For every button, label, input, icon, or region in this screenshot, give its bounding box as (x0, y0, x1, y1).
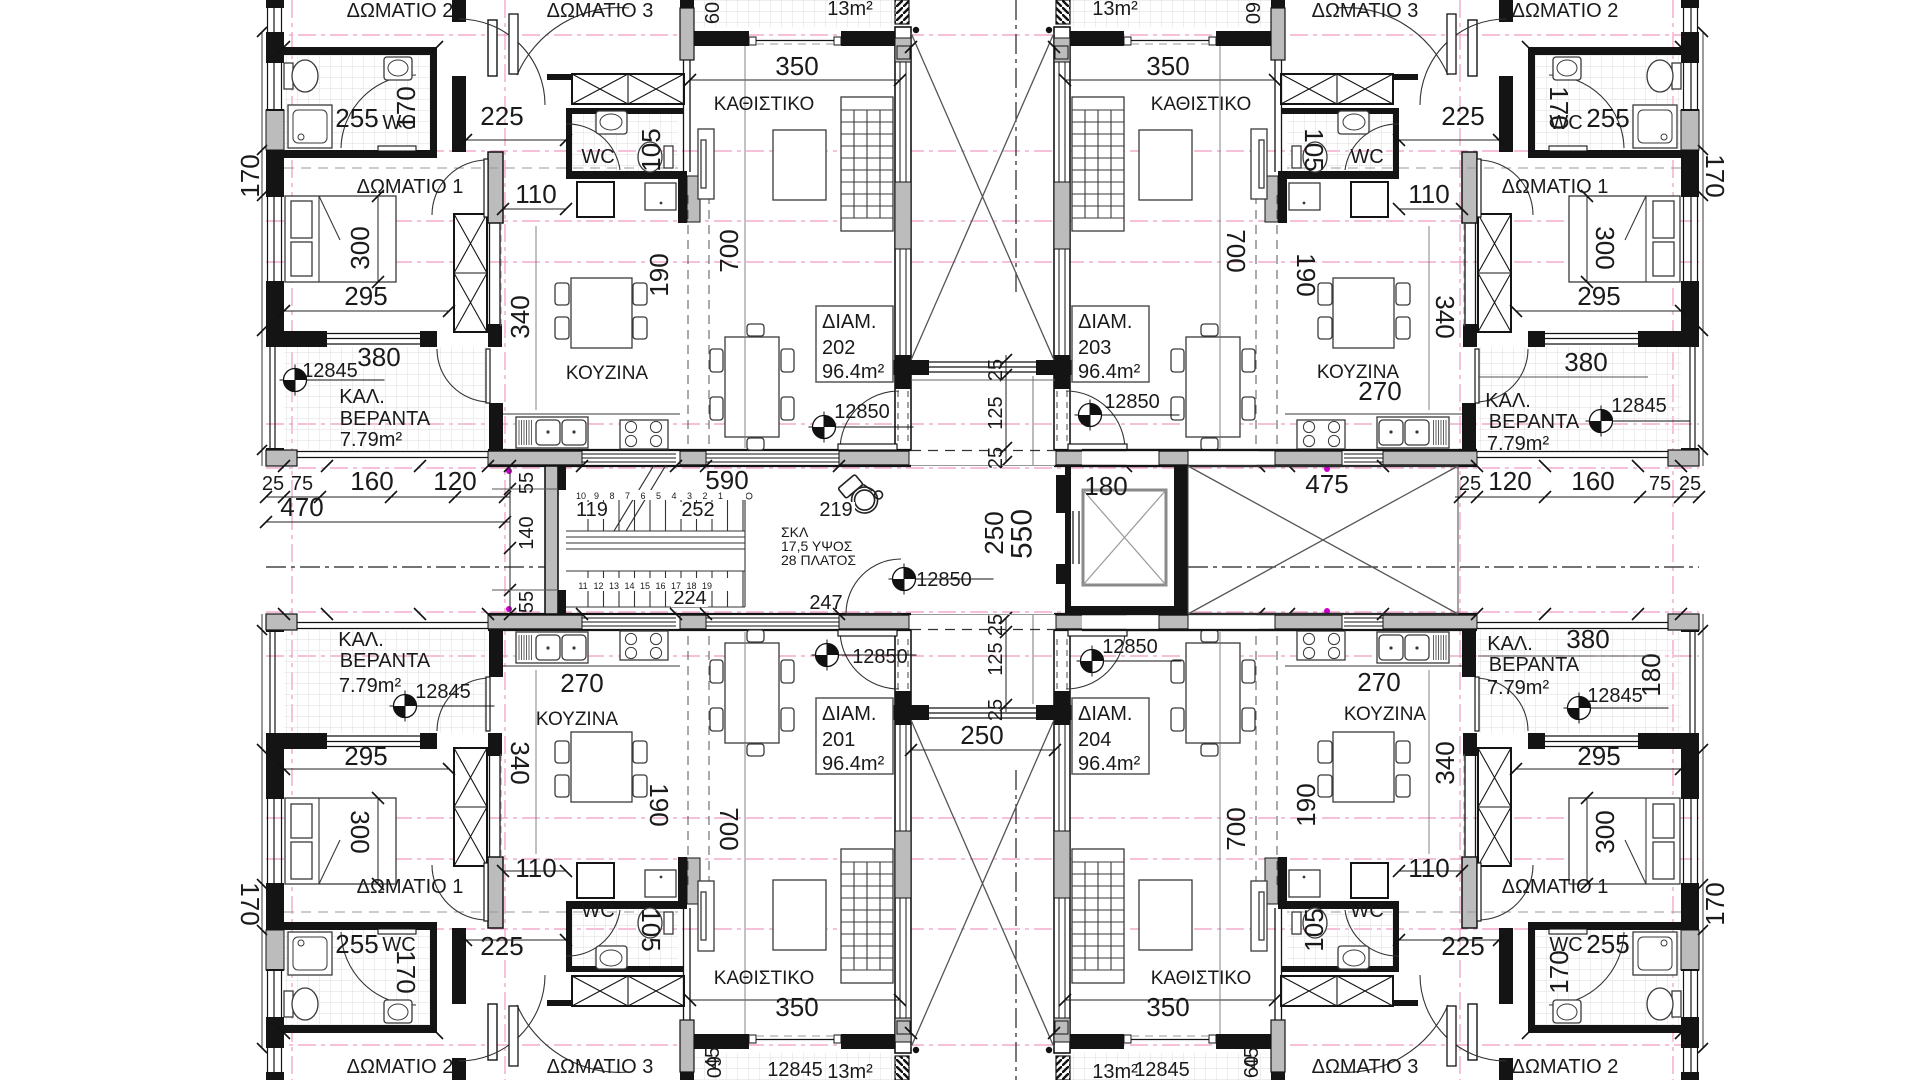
wc fixtures (596, 111, 627, 134)
svg-text:45: 45 (702, 1047, 724, 1069)
svg-text:ΔΩΜΑΤΙΟ 2: ΔΩΜΑΤΙΟ 2 (1512, 0, 1619, 22)
svg-text:19: 19 (702, 581, 712, 591)
black dash-dot centerlines (1015, 0, 1017, 295)
svg-text:340: 340 (505, 741, 535, 784)
svg-text:7: 7 (625, 491, 630, 501)
bed bedroom1 (285, 196, 396, 282)
dining table (725, 337, 779, 437)
svg-text:700: 700 (714, 229, 744, 272)
svg-text:204: 204 (1078, 729, 1111, 751)
hall closet & cabinet (577, 182, 614, 217)
living west wall (680, 0, 694, 8)
svg-text:12845: 12845 (302, 360, 358, 382)
svg-text:ΔΩΜΑΤΙΟ 1: ΔΩΜΑΤΙΟ 1 (1502, 876, 1609, 898)
svg-text:ΚΟΥΖΙΝΑ: ΚΟΥΖΙΝΑ (566, 363, 649, 384)
svg-text:16: 16 (655, 581, 665, 591)
svg-text:190: 190 (1291, 253, 1321, 296)
wc walls (566, 108, 684, 114)
svg-text:25: 25 (985, 447, 1007, 469)
svg-text:250: 250 (960, 720, 1003, 750)
svg-text:170: 170 (391, 950, 421, 993)
svg-text:ΚΑΛ.: ΚΑΛ. (1487, 633, 1533, 655)
svg-text:17: 17 (671, 581, 681, 591)
svg-text:160: 160 (350, 466, 393, 496)
svg-text:ΒΕΡΑΝΤΑ: ΒΕΡΑΝΤΑ (340, 408, 431, 430)
svg-text:ΔΩΜΑΤΙΟ 3: ΔΩΜΑΤΙΟ 3 (547, 0, 654, 22)
extension lines (492, 488, 558, 490)
svg-text:25: 25 (985, 699, 1007, 721)
svg-text:12845: 12845 (1611, 395, 1667, 417)
svg-text:5: 5 (656, 491, 661, 501)
svg-text:170: 170 (1544, 86, 1574, 129)
svg-text:60: 60 (702, 2, 724, 24)
svg-text:700: 700 (1221, 229, 1251, 272)
svg-text:ΚΑΛ.: ΚΑΛ. (338, 629, 384, 651)
svg-text:125: 125 (985, 642, 1007, 675)
svg-text:25: 25 (985, 614, 1007, 636)
svg-text:180: 180 (1084, 471, 1127, 501)
svg-text:25: 25 (985, 359, 1007, 381)
svg-text:270: 270 (1358, 376, 1401, 406)
living north wall w/ window (694, 31, 749, 46)
svg-text:WC: WC (1350, 900, 1383, 922)
main band (488, 450, 911, 466)
svg-text:12845: 12845 (1587, 685, 1643, 707)
bedroom1 wardrobe + walls (488, 152, 503, 223)
svg-text:255: 255 (335, 929, 378, 959)
svg-text:3: 3 (687, 491, 692, 501)
svg-text:190: 190 (644, 783, 674, 826)
svg-text:55: 55 (516, 591, 538, 613)
svg-text:12: 12 (593, 581, 603, 591)
svg-text:15: 15 (640, 581, 650, 591)
svg-text:203: 203 (1078, 337, 1111, 359)
svg-text:12850: 12850 (852, 646, 908, 668)
svg-text:ΔΙΑΜ.: ΔΙΑΜ. (1078, 311, 1132, 333)
svg-text:10: 10 (576, 491, 586, 501)
svg-text:12845: 12845 (1134, 1059, 1190, 1080)
svg-text:12850: 12850 (916, 569, 972, 591)
dimension lines (503, 208, 566, 210)
svg-text:700: 700 (1221, 807, 1251, 850)
svg-text:119: 119 (576, 499, 608, 521)
svg-text:25: 25 (1679, 473, 1701, 495)
svg-text:9: 9 (594, 491, 599, 501)
svg-text:96.4m²: 96.4m² (1078, 753, 1141, 775)
svg-text:340: 340 (505, 295, 535, 338)
svg-text:247: 247 (809, 592, 842, 614)
svg-text:45: 45 (1241, 1047, 1263, 1069)
svg-text:8: 8 (609, 491, 614, 501)
svg-text:28 ΠΛΑΤΟΣ: 28 ΠΛΑΤΟΣ (781, 552, 856, 568)
svg-text:201: 201 (822, 729, 855, 751)
svg-text:7.79m²: 7.79m² (340, 429, 403, 451)
svg-text:170: 170 (1700, 154, 1730, 197)
svg-text:96.4m²: 96.4m² (822, 361, 885, 383)
svg-text:ΒΕΡΑΝΤΑ: ΒΕΡΑΝΤΑ (340, 650, 431, 672)
svg-text:18: 18 (686, 581, 696, 591)
door swing arcs (341, 75, 416, 148)
svg-text:300: 300 (1590, 810, 1620, 853)
shaft west wall (895, 27, 911, 450)
svg-text:ΚΑΘΙΣΤΙΚΟ: ΚΑΘΙΣΤΙΚΟ (714, 94, 815, 115)
svg-text:700: 700 (714, 807, 744, 850)
svg-text:25: 25 (1459, 473, 1481, 495)
svg-text:380: 380 (1564, 347, 1607, 377)
svg-text:11: 11 (578, 581, 587, 591)
left dim rows (266, 496, 510, 498)
svg-text:190: 190 (644, 253, 674, 296)
svg-text:WC: WC (581, 146, 614, 168)
svg-text:60: 60 (1241, 2, 1263, 24)
svg-text:105: 105 (1299, 128, 1329, 171)
svg-text:13m²: 13m² (1092, 1061, 1138, 1080)
void right of elevator (1188, 466, 1458, 614)
svg-text:ΔΙΑΜ.: ΔΙΑΜ. (1078, 703, 1132, 725)
tiled floors (284, 55, 430, 150)
svg-text:ΒΕΡΑΝΤΑ: ΒΕΡΑΝΤΑ (1489, 411, 1580, 433)
bathroom walls (284, 47, 437, 55)
svg-text:13: 13 (609, 581, 619, 591)
svg-text:295: 295 (344, 741, 387, 771)
svg-text:7.79m²: 7.79m² (1487, 433, 1550, 455)
svg-text:WC: WC (581, 900, 614, 922)
svg-text:190: 190 (1291, 783, 1321, 826)
svg-text:225: 225 (1441, 101, 1484, 131)
svg-text:ΚΑΛ.: ΚΑΛ. (1485, 390, 1531, 412)
svg-text:270: 270 (560, 668, 603, 698)
svg-text:13m²: 13m² (827, 1061, 873, 1080)
svg-text:110: 110 (1408, 853, 1449, 883)
svg-text:225: 225 (1441, 931, 1484, 961)
svg-text:225: 225 (480, 931, 523, 961)
svg-text:ΔΩΜΑΤΙΟ 3: ΔΩΜΑΤΙΟ 3 (1312, 1056, 1419, 1078)
svg-text:170: 170 (235, 882, 265, 925)
svg-text:350: 350 (775, 992, 818, 1022)
svg-text:170: 170 (391, 86, 421, 129)
svg-text:7.79m²: 7.79m² (1487, 677, 1550, 699)
svg-text:12850: 12850 (1102, 636, 1158, 658)
interior dashed beam lines (687, 195, 689, 450)
svg-text:4: 4 (671, 491, 676, 501)
svg-text:ΔΩΜΑΤΙΟ 2: ΔΩΜΑΤΙΟ 2 (347, 1056, 454, 1078)
svg-text:ΒΕΡΑΝΤΑ: ΒΕΡΑΝΤΑ (1489, 654, 1580, 676)
magenta grid lines (266, 34, 1699, 36)
svg-text:120: 120 (1488, 466, 1531, 496)
svg-text:110: 110 (515, 179, 556, 209)
svg-text:255: 255 (1586, 929, 1629, 959)
svg-text:12845: 12845 (767, 1059, 823, 1080)
svg-text:75: 75 (1649, 473, 1671, 495)
svg-text:ΔΙΑΜ.: ΔΙΑΜ. (822, 703, 876, 725)
center benchmark (889, 564, 994, 595)
wheelchair symbol (838, 469, 887, 519)
svg-text:ΚΟΥΖΙΝΑ: ΚΟΥΖΙΝΑ (1344, 704, 1427, 725)
svg-text:ΔΩΜΑΤΙΟ 1: ΔΩΜΑΤΙΟ 1 (357, 876, 464, 898)
svg-text:ΔΩΜΑΤΙΟ 2: ΔΩΜΑΤΙΟ 2 (347, 0, 454, 22)
svg-text:120: 120 (433, 466, 476, 496)
svg-text:170: 170 (1544, 950, 1574, 993)
svg-text:255: 255 (1586, 103, 1629, 133)
kitchen table (571, 278, 632, 348)
svg-text:170: 170 (235, 154, 265, 197)
svg-text:300: 300 (345, 226, 375, 269)
outer dimension line left (261, 32, 263, 466)
svg-text:105: 105 (1299, 908, 1329, 951)
svg-text:2: 2 (702, 491, 707, 501)
hall wardrobe (547, 74, 572, 80)
svg-text:ΚΑΘΙΣΤΙΚΟ: ΚΑΘΙΣΤΙΚΟ (1151, 968, 1252, 989)
svg-text:350: 350 (1146, 51, 1189, 81)
svg-text:ΔΩΜΑΤΙΟ 1: ΔΩΜΑΤΙΟ 1 (357, 176, 464, 198)
svg-text:470: 470 (280, 492, 323, 522)
svg-text:202: 202 (822, 337, 855, 359)
svg-text:270: 270 (1357, 667, 1400, 697)
svg-text:ΚΑΛ.: ΚΑΛ. (339, 386, 385, 408)
svg-text:340: 340 (1430, 741, 1460, 784)
svg-text:295: 295 (1577, 281, 1620, 311)
svg-text:255: 255 (335, 103, 378, 133)
band correction near elevator (not mirrored) (1082, 451, 1344, 465)
svg-text:7.79m²: 7.79m² (339, 675, 402, 697)
svg-text:225: 225 (480, 101, 523, 131)
svg-text:12850: 12850 (834, 401, 890, 423)
staircase (545, 466, 558, 614)
svg-text:ΔΩΜΑΤΙΟ 3: ΔΩΜΑΤΙΟ 3 (1312, 0, 1419, 22)
svg-text:380: 380 (357, 342, 400, 372)
svg-text:ΔΩΜΑΤΙΟ 2: ΔΩΜΑΤΙΟ 2 (1512, 1056, 1619, 1078)
svg-text:252: 252 (681, 499, 714, 521)
svg-text:110: 110 (515, 853, 556, 883)
shelf unit (841, 97, 893, 231)
svg-text:96.4m²: 96.4m² (1078, 361, 1141, 383)
svg-text:ΚΑΘΙΣΤΙΚΟ: ΚΑΘΙΣΤΙΚΟ (714, 968, 815, 989)
svg-text:ΚΟΥΖΙΝΑ: ΚΟΥΖΙΝΑ (536, 709, 619, 730)
svg-text:ΔΙΑΜ.: ΔΙΑΜ. (822, 311, 876, 333)
svg-text:219: 219 (819, 499, 852, 521)
right dim row (1455, 496, 1699, 498)
svg-text:13m²: 13m² (1092, 0, 1138, 20)
svg-text:300: 300 (1590, 226, 1620, 269)
svg-text:12850: 12850 (1104, 391, 1160, 413)
svg-text:350: 350 (775, 51, 818, 81)
svg-text:170: 170 (1700, 882, 1730, 925)
shaft bottom wall + cross quarter (893, 360, 929, 375)
svg-text:295: 295 (344, 281, 387, 311)
svg-text:475: 475 (1305, 469, 1348, 499)
svg-text:ΔΩΜΑΤΙΟ 3: ΔΩΜΑΤΙΟ 3 (547, 1056, 654, 1078)
thresholds at band gaps (911, 450, 1055, 452)
svg-text:160: 160 (1571, 466, 1614, 496)
svg-text:300: 300 (345, 810, 375, 853)
svg-text:1: 1 (718, 491, 723, 501)
svg-text:380: 380 (1566, 624, 1609, 654)
svg-text:13m²: 13m² (827, 0, 873, 20)
svg-text:ΚΑΘΙΣΤΙΚΟ: ΚΑΘΙΣΤΙΚΟ (1151, 94, 1252, 115)
svg-text:125: 125 (985, 396, 1007, 429)
svg-text:14: 14 (624, 581, 634, 591)
svg-text:340: 340 (1430, 295, 1460, 338)
coffee table + tv (773, 130, 826, 200)
svg-text:350: 350 (1146, 992, 1189, 1022)
svg-text:295: 295 (1577, 741, 1620, 771)
svg-text:250: 250 (979, 511, 1009, 554)
svg-text:12845: 12845 (415, 681, 471, 703)
svg-text:105: 105 (636, 128, 666, 171)
svg-text:96.4m²: 96.4m² (822, 753, 885, 775)
svg-text:ΔΩΜΑΤΙΟ 1: ΔΩΜΑΤΙΟ 1 (1502, 176, 1609, 198)
elevator (1065, 466, 1071, 614)
center dim chain (1005, 355, 1007, 462)
svg-text:55: 55 (516, 472, 538, 494)
center stair texts (576, 502, 609, 519)
svg-text:140: 140 (516, 516, 538, 549)
bathroom fixtures (284, 63, 293, 89)
exterior left wall (266, 0, 284, 8)
svg-text:550: 550 (1006, 509, 1039, 559)
hall walls / bedroom2 door (452, 0, 466, 22)
kitchen counter (503, 413, 680, 415)
svg-text:6: 6 (640, 491, 645, 501)
svg-text:180: 180 (1636, 653, 1666, 696)
svg-text:110: 110 (1408, 179, 1449, 209)
svg-text:105: 105 (636, 908, 666, 951)
svg-text:WC: WC (1350, 146, 1383, 168)
